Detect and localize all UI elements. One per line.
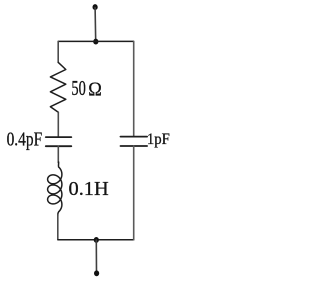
wire: resistor to capacitor C1: [57, 112, 59, 137]
capacitor C2 1pF bottom plate: [121, 145, 148, 147]
svg-text:50: 50: [71, 78, 85, 100]
wire: right branch bottom lead: [133, 146, 135, 240]
resistor R 50 ohm zigzag: [50, 62, 65, 112]
wire: right branch top lead: [133, 41, 135, 136]
wire: top rail: [58, 40, 134, 42]
node: top terminal dot: [93, 4, 98, 10]
svg-text:Ω: Ω: [88, 78, 102, 100]
wire: bottom rail: [58, 239, 134, 241]
wire: top terminal lead: [94, 8, 97, 42]
wire: capacitor C1 to inductor: [57, 146, 59, 162]
wire: left branch top lead: [57, 41, 59, 62]
wire: inductor to bottom rail: [57, 215, 59, 240]
capacitor C2 1pF top plate: [121, 136, 148, 138]
node: top junction dot: [93, 39, 98, 45]
svg-text:1pF: 1pF: [147, 131, 170, 148]
svg-text:0.1H: 0.1H: [69, 178, 109, 200]
wire: bottom terminal lead: [95, 240, 97, 273]
svg-text:0.4pF: 0.4pF: [7, 128, 43, 150]
capacitor C1 0.4pF bottom plate: [46, 145, 72, 147]
node: bottom junction dot: [94, 237, 99, 243]
node: bottom terminal dot: [94, 270, 99, 276]
inductor L 0.1H coil: [48, 162, 62, 216]
capacitor C1 0.4pF top plate: [46, 136, 72, 138]
